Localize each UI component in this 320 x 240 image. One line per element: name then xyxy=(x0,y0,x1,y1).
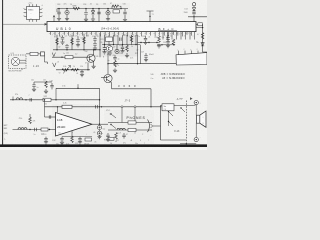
wire drop p5 xyxy=(77,36,79,44)
capacitor C404 xyxy=(78,138,81,140)
jack contact plate1 xyxy=(128,121,136,124)
wire if-pin3 xyxy=(113,35,115,45)
inductor L101 xyxy=(16,98,23,100)
ground G-C201 xyxy=(57,19,61,21)
wire ua-d1 xyxy=(61,137,63,142)
wire if-d2 xyxy=(109,45,111,53)
VR101 box xyxy=(43,98,51,101)
ground G-C321 xyxy=(166,46,170,48)
wire ua-h xyxy=(62,136,92,138)
smudge underlay IF xyxy=(100,36,138,56)
IC U201 body xyxy=(47,22,196,32)
diode D203 xyxy=(201,43,204,46)
ground G-C421 xyxy=(97,137,101,139)
wire drop x88 xyxy=(87,62,89,69)
wire sw-d2 xyxy=(134,108,136,121)
junction j2 xyxy=(66,49,67,50)
junction jif1 xyxy=(104,44,105,45)
wire bus-H xyxy=(56,87,100,89)
junction jbl xyxy=(186,143,187,144)
junction jI2 xyxy=(101,106,102,107)
junction rail-C202 xyxy=(66,8,67,9)
wire bottom link xyxy=(180,143,196,145)
U201 input arrow xyxy=(44,23,47,25)
wire jg1-stub xyxy=(12,97,14,100)
op-amp U401 body xyxy=(56,113,93,137)
wire if-long-pin1 xyxy=(137,35,139,64)
microphone dashed enclosure xyxy=(9,55,27,69)
smudge underlay opamp xyxy=(52,104,100,144)
wire phc-d3 xyxy=(123,133,125,139)
junction ant xyxy=(149,16,150,17)
wire drop p3 xyxy=(66,44,68,50)
junction j5 xyxy=(61,57,62,58)
wire if-d6 xyxy=(126,53,128,55)
wire C202 xyxy=(66,9,68,19)
ground G-Q303 xyxy=(108,53,112,55)
ground G-C305 xyxy=(93,48,97,50)
junction chain-junction xyxy=(193,16,194,17)
junction j4 xyxy=(99,49,100,50)
junction sw3a xyxy=(168,111,169,112)
capacitor C111 xyxy=(50,85,53,87)
wire bus-A xyxy=(53,49,100,51)
electrolytic capacitor C205 xyxy=(106,11,110,15)
ground G-C430 xyxy=(44,142,48,144)
wire speaker top xyxy=(195,105,197,116)
ground G-C303 xyxy=(76,45,80,47)
wire mx-d2 xyxy=(45,89,47,91)
capacitor C110 xyxy=(32,85,35,87)
wire rail lower xyxy=(99,130,101,137)
ground G-C311 xyxy=(102,52,106,54)
wire phc-d2 xyxy=(115,141,117,142)
resistor R315 xyxy=(114,60,117,67)
wire gang pin4 xyxy=(197,51,199,54)
junction sw2b xyxy=(110,124,111,125)
wire det3 xyxy=(114,68,116,70)
wire J16 down xyxy=(45,56,48,64)
decoupler box right xyxy=(198,23,203,26)
electrolytic capacitor C202 xyxy=(65,10,69,14)
wire rp-d2 xyxy=(158,35,160,36)
wire C205 xyxy=(107,9,109,19)
smudge underlay rail xyxy=(55,3,130,22)
wire bus-I xyxy=(45,106,100,108)
capacitor C410 xyxy=(106,135,109,137)
junction jin1 xyxy=(29,129,30,130)
wire drop p8 xyxy=(99,34,101,58)
resistor R321 xyxy=(158,36,161,43)
junction rail-end xyxy=(120,8,121,9)
ground G-C319 xyxy=(144,60,148,62)
ground G-R311 xyxy=(125,56,129,58)
bottom sheet border xyxy=(0,144,207,147)
output frame left xyxy=(161,106,194,141)
ground G-R111 xyxy=(44,91,48,93)
capacitor C319 xyxy=(144,56,147,58)
wire rp-d4 xyxy=(167,35,169,42)
wire sw-d1 xyxy=(121,108,123,123)
junction jbr3 xyxy=(156,42,157,43)
wire bus-R xyxy=(138,42,160,44)
resistor R320 xyxy=(172,39,175,46)
ground G-C202 xyxy=(65,19,69,21)
wire if-pin4 xyxy=(117,35,119,45)
junction j3 xyxy=(83,49,84,50)
switch contact S1a xyxy=(121,106,123,108)
R202 box xyxy=(113,10,119,13)
junction jq xyxy=(107,63,108,64)
ground G-C306 xyxy=(80,75,84,77)
junction rail-D201 xyxy=(92,8,93,9)
wire cap drop xyxy=(81,70,83,75)
junction jr3 xyxy=(99,99,100,100)
wire Q301 collector xyxy=(93,50,95,55)
junction jg2 xyxy=(25,99,26,100)
scan noise overlay xyxy=(0,0,207,150)
resistor R406 box xyxy=(85,138,92,141)
up arrow feed xyxy=(53,15,55,21)
transistor Q302 xyxy=(104,74,112,82)
capacitor C101 xyxy=(30,98,32,101)
resistor R403 xyxy=(29,117,32,124)
wire rp-d1 xyxy=(145,36,147,43)
wire C204 drop to U201 xyxy=(98,9,100,22)
wire r-end xyxy=(203,48,207,52)
wire C206 xyxy=(124,9,126,20)
wire U401 in+ xyxy=(45,116,56,118)
junction j7 xyxy=(71,69,72,70)
wire if-pin2 xyxy=(108,35,110,45)
junction jr4 xyxy=(99,106,100,107)
transistor Q303 xyxy=(106,46,112,52)
wire if-pin8 xyxy=(135,35,137,45)
capacitor C401 xyxy=(49,115,51,118)
junction jg1 xyxy=(12,99,13,100)
wire if-pin5 xyxy=(122,35,124,45)
terminal pad bottom P402 xyxy=(194,138,198,142)
resistor R201 xyxy=(73,7,80,10)
wire jack-frame xyxy=(153,125,161,127)
electrolytic capacitor C421 xyxy=(97,131,101,135)
U101 pins xyxy=(24,4,42,22)
wire drop p1 xyxy=(56,35,58,50)
terminal pad top P401 xyxy=(194,101,198,105)
junction jF xyxy=(150,106,151,107)
wire gang pin3 xyxy=(191,51,193,54)
IC U101 body xyxy=(27,7,40,20)
capacitor C403 xyxy=(60,138,63,140)
wire Q301 emitter xyxy=(93,61,95,66)
jack contact plate2 xyxy=(128,128,136,131)
ground G-C205 xyxy=(106,19,110,21)
capacitor C402 xyxy=(35,128,37,131)
wire R403 top xyxy=(29,114,31,117)
capacitor C316 xyxy=(113,57,116,59)
wire if-d5 xyxy=(126,44,128,46)
wire gang pin1 xyxy=(178,51,180,55)
resistor R306 xyxy=(72,69,79,72)
speaker SP1 xyxy=(197,111,206,127)
wire Q302 emitter xyxy=(110,82,113,89)
junction jbr1 xyxy=(140,42,141,43)
left sheet border xyxy=(2,0,4,146)
resistor R111 xyxy=(45,81,48,88)
wire Q301 base xyxy=(88,56,90,58)
resistor R102 box xyxy=(30,52,38,55)
wire drop p2 xyxy=(62,35,64,41)
wire mic-gnd xyxy=(21,69,23,71)
wire right rail down xyxy=(99,88,101,125)
crystal X301 xyxy=(52,53,55,57)
ground G-C404 xyxy=(78,142,82,144)
wire jh1-stub xyxy=(77,84,79,88)
wire bus-B xyxy=(52,56,88,58)
capacitor C314 xyxy=(121,47,124,49)
wire mic leads xyxy=(20,60,26,63)
switch lever SW3c xyxy=(181,108,185,112)
wire U401 in- xyxy=(13,129,56,131)
resistor R310 xyxy=(130,36,133,43)
junction jg3 xyxy=(55,99,56,100)
junction jg4 xyxy=(44,99,45,100)
pointer wedge xyxy=(190,97,193,100)
capacitor C430 xyxy=(44,138,47,140)
ground G-R321 xyxy=(157,46,161,48)
junction rail-C205 xyxy=(107,8,108,9)
microphone element M1 xyxy=(11,57,19,65)
junction sw3c xyxy=(180,107,181,108)
resistor R410 xyxy=(115,133,118,140)
wire mx-d3 xyxy=(51,83,53,89)
switch lever SW3a xyxy=(169,112,174,117)
switch contact S1b xyxy=(134,106,136,108)
capacitor C310 xyxy=(120,38,122,41)
transistor Q301 xyxy=(87,54,95,62)
junction jin2 xyxy=(49,129,50,130)
wire Q303-Q302 link xyxy=(107,52,109,64)
wire gang pin2 xyxy=(184,51,186,55)
junction sw2a xyxy=(110,113,111,114)
capacitor C207 xyxy=(192,12,195,14)
resistor R404 box xyxy=(41,128,48,131)
ground G-C203 xyxy=(84,19,88,21)
wire if-pin7 xyxy=(131,35,133,45)
wire bus-F xyxy=(112,88,152,90)
wire chain xyxy=(193,6,195,22)
capacitor C206 xyxy=(123,12,126,14)
wire rp-d3 xyxy=(158,44,160,46)
junction jfb xyxy=(57,106,58,107)
capacitor C303 xyxy=(76,40,79,42)
capacitor C411 xyxy=(122,135,125,137)
wire bus-G xyxy=(10,99,100,101)
junction rail-C204 xyxy=(98,8,99,9)
resistor R311 xyxy=(126,45,129,52)
wire F-drop xyxy=(150,89,152,107)
ground G-R315 xyxy=(113,70,117,72)
capacitor C304 xyxy=(93,39,96,41)
wire if-pin1 xyxy=(104,35,106,45)
wire det-drop xyxy=(145,53,147,59)
IF transformer box T301 xyxy=(106,37,113,41)
wire if-d3 xyxy=(116,45,118,50)
capacitor C422 xyxy=(96,105,98,108)
wire D201 xyxy=(92,9,94,19)
wire drop p7 xyxy=(94,36,96,48)
switch lever SW2a xyxy=(110,114,116,118)
junction jif2 xyxy=(113,44,114,45)
wire vert-44 xyxy=(44,100,46,117)
junction jgl xyxy=(161,44,162,45)
junction p402c xyxy=(196,139,197,140)
tuning gang box xyxy=(176,53,207,65)
wire drop p4 xyxy=(71,35,73,50)
wire Q302 top xyxy=(107,64,109,75)
dashed gang link xyxy=(185,101,187,144)
resistor R210 xyxy=(201,33,204,40)
trimmer arrow xyxy=(63,66,71,74)
wire speaker bottom xyxy=(195,123,197,137)
diode D202 xyxy=(192,8,195,11)
wire U401 out xyxy=(92,123,108,125)
smudge underlay mid-band xyxy=(50,32,138,57)
wire frame right top xyxy=(194,104,196,107)
wire gang-cl xyxy=(167,40,169,45)
terminal pad P201 xyxy=(192,3,195,6)
wire bus-D xyxy=(102,44,140,46)
wire sw-row xyxy=(100,106,162,108)
junction sw3b xyxy=(168,121,169,122)
wire bus-E xyxy=(108,63,176,65)
junction jh1 xyxy=(77,88,78,89)
wire if-d1 xyxy=(104,45,106,52)
switch lever SW3b xyxy=(169,122,174,127)
U101 pad marks xyxy=(23,9,42,16)
wire fb-left-down xyxy=(57,107,59,113)
U201 right pin drops xyxy=(163,32,195,40)
input spike xyxy=(53,63,56,67)
junction jout xyxy=(99,124,100,125)
capacitor C323 xyxy=(166,38,169,40)
ground G-C403 xyxy=(60,142,64,144)
capacitor C302 xyxy=(65,46,68,48)
wire bs1 xyxy=(45,137,47,142)
junction rail-C201 xyxy=(58,8,59,9)
ground G-Q301 xyxy=(92,66,96,68)
wire gang-link xyxy=(157,44,174,46)
ground G-D201 xyxy=(91,19,95,21)
capacitor C305 xyxy=(93,44,96,46)
transformer box T401 3w xyxy=(162,104,174,111)
inductor L402 xyxy=(18,128,27,130)
connector pad J-16 xyxy=(41,52,45,56)
wire if-pin6 xyxy=(126,35,128,45)
capacitor C306 xyxy=(80,71,83,73)
capacitor C311 xyxy=(103,48,106,50)
antenna rod xyxy=(147,11,154,22)
junction jif3 xyxy=(122,44,123,45)
junction j1 xyxy=(56,49,57,50)
ground G-C314 xyxy=(120,51,124,53)
capacitor C321 xyxy=(166,41,169,43)
ground G-C206 xyxy=(123,19,127,21)
wire mx-top xyxy=(34,81,52,83)
capacitor C201 xyxy=(57,12,60,14)
resistor R430 box xyxy=(108,137,114,140)
wire W-left-bus xyxy=(3,23,47,25)
wire det2 xyxy=(114,55,116,60)
U201 pin number marks xyxy=(49,32,191,34)
capacitor C203 xyxy=(84,13,87,15)
ground G-C110 xyxy=(32,89,36,91)
wire C203 xyxy=(85,9,87,19)
junction j6 xyxy=(93,49,94,50)
wire Q302 base xyxy=(101,77,106,79)
ground G-C322 xyxy=(143,42,147,44)
wire phc-d1 xyxy=(107,133,109,139)
resistor R303 xyxy=(83,37,86,44)
switch lever SW2b xyxy=(111,125,116,129)
junction jbr2 xyxy=(148,42,149,43)
electrolytic capacitor C313 xyxy=(115,49,119,53)
wire link-up xyxy=(55,88,57,100)
wire drop p6 xyxy=(83,34,85,50)
junction jif4 xyxy=(135,44,136,45)
feedback resistor R402 box xyxy=(62,105,72,108)
junction rail-C203 xyxy=(85,8,86,9)
junction je2 xyxy=(137,63,138,64)
wire sw3 stem xyxy=(168,112,170,127)
wire mic-R xyxy=(26,53,41,55)
wire ua-d2 xyxy=(79,137,81,142)
U201 bottom pins xyxy=(51,32,192,37)
junction rpin xyxy=(202,27,203,28)
capacitor C322 xyxy=(144,38,147,40)
resistor R202 raised xyxy=(112,6,121,8)
capacitor C301 xyxy=(61,37,64,39)
resistor R405 xyxy=(71,136,74,143)
jack sleeve curve xyxy=(148,120,150,133)
inductor L403 xyxy=(117,128,125,130)
wire ph-row1 xyxy=(108,122,152,124)
wire bus-C xyxy=(56,69,90,71)
wire ph-row2 xyxy=(108,129,152,131)
diode D201 xyxy=(91,11,94,14)
electrolytic capacitor C420 xyxy=(97,125,101,129)
wire U201 right pins xyxy=(196,24,203,48)
junction j8 xyxy=(87,69,88,70)
ground G-C301 xyxy=(60,42,64,44)
junction je1 xyxy=(116,63,117,64)
smudge underlay phones xyxy=(104,110,154,144)
resistor R202-zig xyxy=(112,5,119,8)
resistor R305 xyxy=(62,69,69,72)
wire to right edge xyxy=(188,16,207,18)
box resistor R304 xyxy=(65,56,73,59)
resistor R301 xyxy=(56,38,59,45)
capacitor C204 xyxy=(97,12,100,14)
ground G-C410 xyxy=(106,139,110,141)
resistor R302 xyxy=(71,38,74,45)
junction p401c xyxy=(196,102,197,103)
wire if-long-pin2 xyxy=(140,45,142,64)
wire rail drop C201 xyxy=(56,9,58,12)
wire top power rail xyxy=(57,8,128,10)
wire ua-d0 xyxy=(71,131,73,137)
jack tip notch xyxy=(151,124,153,128)
